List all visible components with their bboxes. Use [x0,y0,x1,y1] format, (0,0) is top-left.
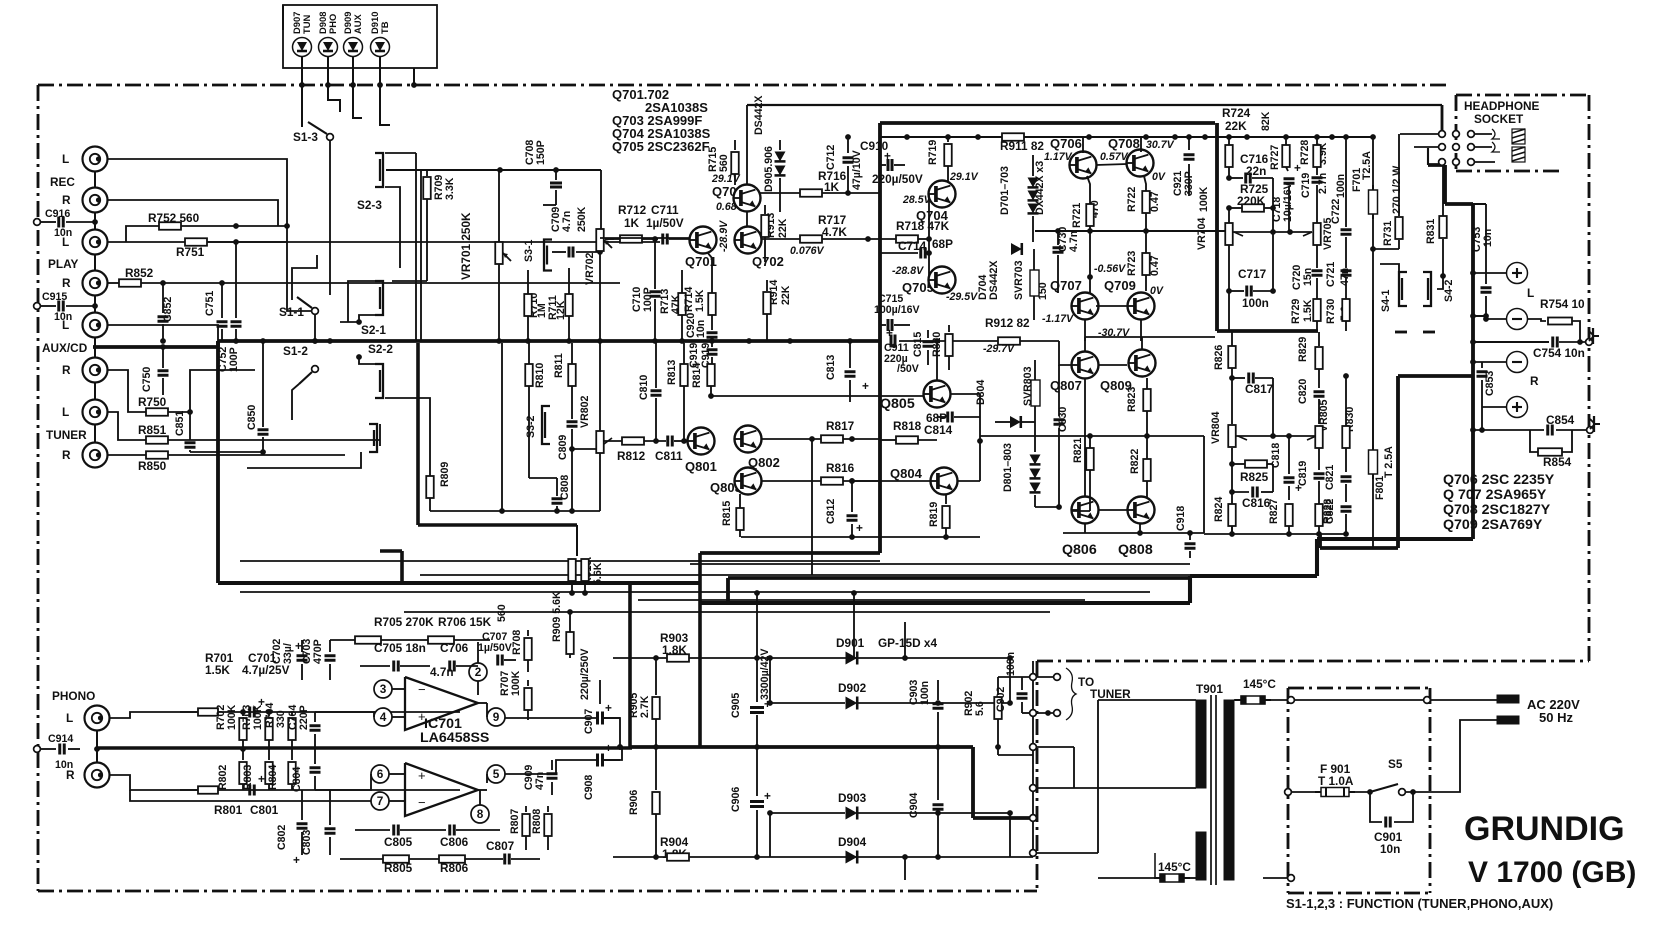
thick supply bus y=747 [630,745,973,749]
svg-text:Q709: Q709 [1104,278,1136,293]
wire Q703 emitter down [746,211,748,227]
border right dash-dot [1588,95,1591,661]
speaker terminal - L [1507,309,1528,330]
svg-text:S1-1: S1-1 [279,305,304,319]
diode lamp D910 [371,38,390,57]
svg-text:5.6K: 5.6K [592,562,604,585]
svg-text:R813: R813 [666,360,678,385]
svg-text:-0.56V: -0.56V [1094,263,1126,275]
svg-text:100K: 100K [1198,186,1210,212]
svg-text:22K: 22K [1225,119,1247,133]
thick y=376 output link [1398,374,1473,378]
svg-text:VR804: VR804 [1210,412,1222,444]
svg-text:C810: C810 [638,375,650,400]
wire C817 right leg [1272,378,1274,436]
opamp pin 5 [487,765,505,783]
svg-text:4: 4 [380,710,387,724]
svg-text:-1.17V: -1.17V [1042,313,1074,325]
svg-text:D902: D902 [838,681,867,695]
hook near S1-1 [292,255,317,300]
svg-text:C822: C822 [1324,499,1336,524]
wires Q706-Q709 quad [1082,137,1084,153]
svg-text:C851: C851 [174,411,186,436]
svg-text:/50V: /50V [897,363,919,375]
long top wire y=105 [747,104,1442,106]
svg-text:100n: 100n [1005,652,1017,676]
svg-text:C705 18n: C705 18n [374,641,426,655]
svg-text:R809: R809 [439,462,451,487]
hooks below S1-2 [292,384,299,420]
svg-text:L: L [1527,286,1534,300]
svg-text:Q701: Q701 [685,254,717,269]
svg-text:R810: R810 [534,363,546,388]
svg-text:1K: 1K [824,180,840,194]
svg-text:C802: C802 [276,825,288,850]
border bottom-right dash-dot [1037,660,1589,663]
border left dash-dot [37,85,40,891]
svg-text:1µ/50V: 1µ/50V [478,642,512,654]
svg-text:R708: R708 [511,630,523,655]
svg-text:Q805: Q805 [880,396,915,412]
svg-text:C804: C804 [291,767,303,792]
wire REC R [107,200,278,226]
svg-text:R825: R825 [1240,470,1269,484]
svg-text:Q806: Q806 [1062,542,1097,558]
svg-text:R909 5.6K: R909 5.6K [551,591,563,642]
svg-text:250K: 250K [576,206,588,232]
wires Q805 region [936,341,938,381]
wire PLAY R to amp [245,282,620,284]
svg-text:4.7n: 4.7n [561,211,573,232]
svg-text:Q707: Q707 [1050,278,1082,293]
wires speaker terminals [1473,272,1506,274]
svg-text:C817: C817 [1245,382,1274,396]
jack link verticals [94,171,96,188]
wires transformer primary [1036,746,1074,748]
svg-text:+: + [856,521,863,535]
thick y=548 lower right [1320,546,1398,550]
svg-text:VR704: VR704 [1196,218,1208,250]
svg-text:AUX: AUX [352,13,363,34]
svg-text:29.1V: 29.1V [949,171,979,183]
svg-text:C905: C905 [730,693,742,718]
svg-text:1K: 1K [624,216,640,230]
long wire y=612 [404,611,1050,613]
svg-text:22K: 22K [780,285,792,305]
wire AUX L [107,325,218,341]
wire Q704 Q705 bases [928,194,930,280]
svg-text:C813: C813 [825,355,837,380]
svg-text:Q705 2SC2362F: Q705 2SC2362F [612,139,710,154]
thick corner x=1217 down [1215,123,1219,331]
lower matrix lines [190,451,263,453]
svg-text:R817: R817 [826,419,855,433]
svg-text:PLAY: PLAY [48,257,79,271]
border bottom-left dash-dot [38,890,1037,893]
svg-text:R827: R827 [1268,499,1280,524]
long matrix verticals [415,153,417,341]
svg-text:HEADPHONE: HEADPHONE [1464,99,1540,113]
svg-text:145°C: 145°C [1243,677,1276,691]
svg-text:4.7µ/25V: 4.7µ/25V [242,663,290,677]
wire bottom Q804 [741,536,980,538]
svg-text:L: L [66,711,73,725]
wire y=511 [430,510,600,512]
svg-text:R851: R851 [138,423,167,437]
svg-text:100K: 100K [252,704,264,730]
svg-text:10n: 10n [695,320,707,338]
svg-text:R721: R721 [1071,203,1083,228]
svg-text:150P: 150P [535,140,547,165]
svg-text:R751: R751 [176,245,205,259]
svg-text:R831: R831 [1425,219,1437,244]
svg-text:R826: R826 [1213,345,1225,370]
wiper arrow into VR702 [605,238,614,240]
opamp pin 8 [471,805,489,823]
svg-text:0V: 0V [1152,171,1166,183]
headphone socket box [1456,94,1541,97]
svg-text:Q 707 2SA965Y: Q 707 2SA965Y [1443,487,1547,503]
svg-text:S1-2: S1-2 [283,344,308,358]
svg-text:C914: C914 [48,733,73,745]
thick bus y=818 [973,816,1033,820]
thick vertical x=1473 down [1471,204,1475,539]
svg-text:R823: R823 [1126,387,1138,412]
opamp pin 4 [374,708,392,726]
main signal bus thick horizontal [218,339,880,343]
svg-text:28.5V: 28.5V [902,194,932,206]
svg-text:2: 2 [475,665,482,679]
svg-text:C821: C821 [1324,465,1336,490]
svg-text:R729: R729 [1290,299,1302,324]
RCA jack TUNER R [83,443,108,468]
diode lamp D909 [344,38,363,57]
speaker terminal + L [1507,263,1528,284]
svg-text:R750: R750 [138,395,167,409]
svg-text:AUX/CD: AUX/CD [42,341,88,355]
long wire y=575 [420,574,1190,576]
wire y=249 F701 to R731 [1372,216,1374,249]
headphone thick link [1427,148,1429,165]
svg-text:5.6: 5.6 [974,701,986,716]
svg-text:R: R [62,276,71,290]
wires S2-1 [348,281,375,322]
svg-text:C711: C711 [651,203,679,217]
svg-text:VR802: VR802 [579,396,591,428]
thick x=728 [726,578,730,603]
svg-text:D903: D903 [838,791,867,805]
svg-text:145°C: 145°C [1158,860,1191,874]
thick left y=551 corner [380,549,402,553]
wire Q707 base feed [1089,230,1091,293]
wire phono L up [109,712,460,718]
svg-text:470P: 470P [312,639,324,664]
svg-text:C809: C809 [557,435,569,460]
long wire y=436 continuation [980,435,1204,437]
svg-text:TB: TB [379,21,390,34]
svg-text:C812: C812 [825,499,837,524]
svg-text:C820: C820 [1297,379,1309,404]
thick y=578 second stair [728,576,1190,580]
svg-text:Q709 2SA769Y: Q709 2SA769Y [1443,517,1543,533]
svg-text:+: + [764,789,771,803]
svg-text:100P: 100P [228,347,240,372]
svg-text:R: R [62,193,71,207]
svg-text:C706: C706 [440,641,469,655]
svg-text:0.57V: 0.57V [1100,151,1129,163]
thick vertical x=880 [878,123,882,553]
wire Q805 base line y=396 [711,395,924,397]
opamp pin 3 [374,680,392,698]
wire mains return [1430,720,1497,792]
wiper wire VR802 [572,448,596,450]
svg-text:C754 10n: C754 10n [1533,346,1585,360]
svg-text:C853: C853 [1484,371,1496,396]
svg-text:7: 7 [377,794,384,808]
svg-text:S5: S5 [1388,757,1403,771]
speaker terminal + R [1507,397,1528,418]
svg-text:L: L [62,152,69,166]
svg-text:C854: C854 [1546,413,1575,427]
svg-text:DS442X: DS442X [753,96,765,135]
wire R810 to C808 [528,408,530,478]
svg-text:10n: 10n [1380,842,1400,856]
svg-text:C808: C808 [559,475,571,500]
RCA jack AUX R [83,358,108,383]
svg-text:-29.5V: -29.5V [946,291,978,303]
svg-text:0.47: 0.47 [1149,255,1161,276]
svg-text:220µ/250V: 220µ/250V [579,649,591,700]
svg-text:30.7V: 30.7V [1146,139,1175,151]
wires S2-2 [359,357,375,364]
svg-text:R: R [1530,374,1539,388]
wire Q703 collector up to y105 [746,105,748,185]
svg-text:+: + [293,853,300,867]
svg-text:50 Hz: 50 Hz [1539,710,1573,725]
headphone hatch blocks [1512,129,1525,144]
wires C902/R902 [998,676,1033,678]
wire transformer bottom to switch box [1263,877,1291,879]
opamp pin 2 [469,663,487,681]
svg-text:-28.9V: -28.9V [718,220,730,252]
svg-text:SVR703: SVR703 [1013,260,1025,300]
svg-text:−: − [418,682,426,697]
opamp pin 9 [487,708,505,726]
svg-text:S3-2: S3-2 [525,416,537,438]
stubs below top border from indicator block [301,85,303,127]
pin2 wire up [477,642,479,663]
RCA jack PLAY R [83,271,108,296]
S4 feed wires [1380,264,1399,272]
svg-text:SOCKET: SOCKET [1474,112,1524,126]
svg-text:R728: R728 [1299,140,1311,165]
svg-text:5: 5 [493,767,500,781]
r701 box [198,708,218,716]
svg-text:R754 10: R754 10 [1540,297,1585,311]
svg-text:T2.5A: T2.5A [1361,151,1373,180]
long wire y=583 thick [218,581,700,585]
svg-text:GP-15D x4: GP-15D x4 [878,636,937,650]
RCA jack TUNER L [83,400,108,425]
svg-text:R852: R852 [125,266,154,280]
svg-text:R819: R819 [928,502,940,527]
svg-text:C907: C907 [583,709,595,734]
svg-text:GRUNDIG: GRUNDIG [1464,810,1625,848]
svg-text:S2-1: S2-1 [361,323,386,337]
svg-text:6: 6 [377,767,384,781]
svg-text:C908: C908 [583,775,595,800]
svg-text:1.5K: 1.5K [694,289,706,312]
svg-text:PHONO: PHONO [52,689,95,703]
RCA jack PHONO L [85,706,110,731]
psu junction dots [653,655,659,661]
svg-text:+: + [605,741,612,755]
svg-text:Q706: Q706 [1050,136,1082,151]
svg-text:C750: C750 [141,367,153,392]
ground C754 [1589,328,1599,344]
wire output node y=316 [1473,315,1486,317]
wire output rail y=230 [1035,230,1226,232]
svg-text:DS442X: DS442X [988,261,1000,300]
svg-text:R824: R824 [1213,497,1225,522]
long vertical x=502 [501,343,503,511]
wire y=170 upper [386,169,601,171]
RCA jack PLAY L [83,230,108,255]
svg-text:C815: C815 [912,332,924,357]
svg-text:100n: 100n [1242,296,1269,310]
long wire y=592 [240,591,1150,593]
svg-text:R803: R803 [242,765,254,790]
svg-text:10n: 10n [1482,229,1494,247]
feedback vertical x=812 [811,439,813,575]
svg-text:R821: R821 [1072,438,1084,463]
svg-text:-29.7V: -29.7V [983,343,1015,355]
svg-text:-28.8V: -28.8V [892,265,924,277]
long wire y=561 [240,560,880,562]
S4 moving contacts [1395,331,1407,334]
opamp IC701 upper [405,677,478,730]
main rail wire y=137 [880,136,1373,138]
svg-text:Q808: Q808 [1118,542,1153,558]
power switch box dash-dot [1288,687,1430,690]
svg-text:R731: R731 [1382,221,1394,246]
speaker terminal - R [1507,352,1528,373]
wire S2-3 arms [385,152,416,154]
svg-text:R912 82: R912 82 [985,316,1030,330]
svg-text:R811: R811 [553,353,565,378]
thick signal bus AUX/CD [93,345,218,349]
svg-text:C805: C805 [384,835,413,849]
svg-text:4.7K: 4.7K [822,225,847,239]
emitter rail y=533 [1063,532,1204,534]
svg-text:1.5K: 1.5K [205,663,230,677]
indicator diode block box D907-D910 [283,5,437,68]
opamp wires [392,688,405,690]
svg-text:S2-3: S2-3 [357,198,382,212]
opamp IC701 lower [405,763,478,816]
svg-text:R815: R815 [721,501,733,526]
diode lamp D907 [293,38,312,57]
svg-text:D905.906: D905.906 [763,146,775,192]
svg-text:R906: R906 [628,790,640,815]
ground C854 [1590,416,1600,432]
svg-text:S4-1: S4-1 [1380,290,1392,312]
wire AUX R [107,370,146,412]
extra contact bracket [369,424,377,452]
svg-text:+: + [418,768,426,783]
headphone contacts [1439,131,1446,138]
thick vertical x=1398 [1396,376,1400,548]
svg-text:R719: R719 [927,140,939,165]
svg-text:R722: R722 [1126,187,1138,212]
svg-text:D801–803: D801–803 [1002,443,1014,492]
svg-text:R712: R712 [618,203,647,217]
svg-text:REC: REC [50,175,75,189]
svg-text:C814: C814 [924,423,953,437]
svg-text:S1-1,2,3 : FUNCTION (TUNER,PH: S1-1,2,3 : FUNCTION (TUNER,PHONO,AUX) [1286,896,1553,911]
svg-text:C850: C850 [246,405,258,430]
RCA jack REC L [83,147,108,172]
svg-text:D904: D904 [838,835,867,849]
svg-text:C807: C807 [486,839,515,853]
svg-text:330: 330 [275,710,287,728]
diode lamp D908 [319,38,338,57]
svg-text:82K: 82K [1260,111,1272,131]
long wire y=564 [690,563,1190,565]
svg-text:C816: C816 [1242,496,1271,510]
svg-text:−: − [418,795,426,810]
svg-text:R822: R822 [1129,449,1141,474]
wires mains top [1291,699,1497,701]
svg-text:V 1700 (GB): V 1700 (GB) [1468,856,1636,889]
svg-text:C803: C803 [301,830,313,855]
switch contact S2-2 [375,364,383,398]
switch matrix wires [286,226,288,243]
svg-text:0.076V: 0.076V [790,245,825,257]
svg-text:D701–703: D701–703 [999,166,1011,215]
thick step x=1190 [1188,576,1192,603]
svg-text:68P: 68P [932,237,953,251]
svg-text:R804: R804 [267,765,279,790]
svg-text:100K: 100K [226,704,238,730]
thick rail top y=123 [880,121,1215,125]
svg-text:8: 8 [477,807,484,821]
wire S1-3 down to switch matrix [329,225,331,295]
svg-text:S4-2: S4-2 [1443,280,1455,302]
svg-text:D804: D804 [975,380,987,405]
long wire y=600 [638,599,1085,601]
thick segment y=331 [1217,329,1318,333]
svg-text:R829: R829 [1297,337,1309,362]
svg-text:+: + [862,379,869,393]
svg-text:0.47: 0.47 [1149,191,1161,212]
thick x=700 [698,553,702,747]
svg-text:R: R [62,448,71,462]
wire x=1442 from y105 to socket [1441,105,1444,131]
svg-text:R801: R801 [214,803,243,817]
RCA jack AUX L [83,313,108,338]
svg-text:150: 150 [1037,282,1049,300]
wires phono to opamp [374,689,460,712]
capacitor C807 symbol [503,854,506,865]
svg-text:T901: T901 [1196,682,1223,696]
svg-text:10µ/16V: 10µ/16V [1282,182,1294,222]
switch contact S2-3 [375,153,383,187]
svg-text:S3-1: S3-1 [523,240,535,262]
AC plug pins [1497,695,1519,703]
border top dash-dot [38,84,1447,87]
wire corner x=1204 [1203,436,1205,533]
